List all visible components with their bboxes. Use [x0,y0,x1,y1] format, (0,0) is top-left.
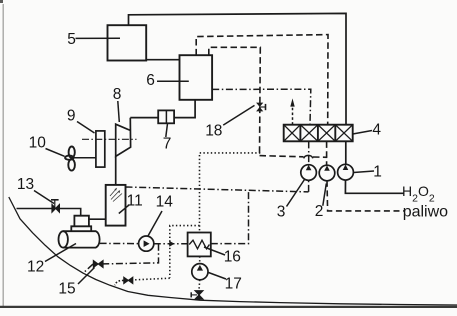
wire condensate return dash-dot [126,187,309,192]
wire box7 to generator6 [174,100,195,118]
label 12 leader [45,244,76,262]
svg-text:12: 12 [27,259,44,276]
label 6 leader [157,80,189,82]
label 8 leader [118,101,120,122]
svg-text:11: 11 [127,193,143,210]
dotted cooler to pump17 [199,256,201,263]
vent arrow [292,105,294,125]
dotted overboard line [133,278,170,280]
scan bottom border [0,306,457,308]
svg-text:13: 13 [17,176,34,193]
label 9 leader [77,122,95,134]
label 3 leader [287,180,305,207]
wire pump14 discharge dash-dot [154,243,188,245]
pump unit 12 [59,216,100,248]
wire drain branch dash-dot [103,244,158,264]
svg-text:18: 18 [205,122,222,139]
scan left edge line [2,4,4,307]
propeller 10 [65,147,96,171]
label 11 leader [119,205,129,214]
wire pump3 discharge dash-dot [308,141,310,165]
turbine 8 [116,118,131,157]
tank 5 [108,25,147,60]
wire dashed catalyst to pump2 [326,141,328,165]
label 16 leader [204,247,225,255]
wire turbine exhaust to chamber 11 [115,156,117,185]
box 7 [158,110,174,123]
wire H2O2 top line [129,13,347,124]
svg-text:paliwo: paliwo [403,203,448,220]
svg-text:16: 16 [224,248,241,265]
label 14 leader [148,211,162,237]
label 7 leader [166,124,168,138]
svg-text:17: 17 [225,276,242,293]
catalyst pack 4 [284,125,353,142]
dotted fuel to cooler [200,153,261,233]
pump 2 [319,165,335,181]
wire paliwo supply dashed [327,181,404,211]
wire pump14 suction dash-dot [100,242,139,244]
label 2 leader [323,184,327,206]
hull curve [9,197,457,305]
label 18 leader [223,105,254,125]
svg-text:10: 10 [29,135,47,152]
valve 15 [93,260,103,267]
wire pump3 suction stub [308,180,310,192]
label 1 leader [354,171,375,173]
svg-text:5: 5 [67,31,76,48]
svg-text:7: 7 [163,136,172,153]
valve 13 [51,200,59,212]
inner dashed to valve18 [209,47,260,155]
wire H2O2 supply [345,180,404,193]
gas generator 6 [180,55,213,100]
jump arc [304,155,313,158]
label 4 leader [353,131,372,135]
wire tank5 to box6 [146,59,179,61]
outer dashed fuel line [196,35,328,125]
dash-dot generator6 to pump3 [212,89,311,125]
pump 1 [338,164,354,180]
cooler 16 [188,233,211,257]
box 7 divider [165,110,167,123]
label 17 leader [209,273,227,280]
label 13 leader [34,191,54,204]
svg-text:1: 1 [373,164,382,181]
pump 17 [192,264,208,280]
chamber 11 [106,185,126,226]
svg-text:4: 4 [372,122,381,139]
pump 14 [139,236,154,251]
chamber 11 spray [110,188,122,202]
svg-text:6: 6 [146,72,155,89]
svg-text:8: 8 [113,86,122,103]
wire valve13 to pump unit 12 [59,209,80,216]
svg-text:14: 14 [156,193,174,210]
label 10 leader [46,149,65,157]
gearbox 9 [96,131,105,167]
wire cooler16 outlet dash-dot [211,190,249,244]
dotted branch to junction [170,226,200,278]
shaft axis [82,138,137,140]
svg-text:15: 15 [58,280,75,297]
dotted pump17 discharge [198,280,201,291]
svg-text:9: 9 [67,108,76,125]
wire solid catalyst to pump1 [345,141,347,164]
label 15 leader [78,268,95,285]
hull valve 17a [191,291,203,299]
dashed valve18 to pump2 line [260,156,304,157]
wire turbine inlet pipe [130,117,158,119]
wire pump unit 12 to chamber 11 [89,218,106,220]
svg-text:3: 3 [277,204,286,221]
pump 3 [301,165,317,181]
cooler 16 zigzag [189,240,209,249]
svg-text:2: 2 [315,203,324,220]
label 5 leader [76,37,121,39]
valve 18 [256,103,265,112]
overboard valve [124,277,133,283]
junction arrow [169,241,174,247]
sea intake pipe [17,208,53,210]
